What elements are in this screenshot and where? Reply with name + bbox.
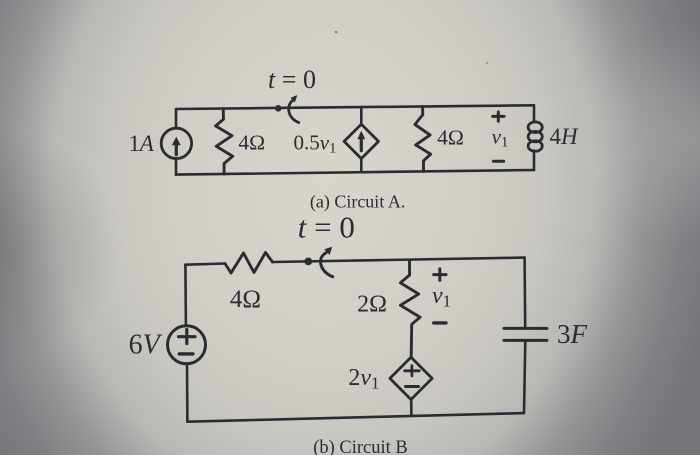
svg-text:v1: v1	[432, 283, 451, 310]
svg-text:4Ω: 4Ω	[230, 286, 261, 313]
svg-text:2v1: 2v1	[348, 365, 379, 392]
svg-text:4H: 4H	[549, 124, 579, 149]
svg-text:2Ω: 2Ω	[357, 292, 387, 318]
svg-text:t = 0: t = 0	[268, 65, 316, 94]
svg-text:t = 0: t = 0	[298, 210, 355, 245]
svg-text:4Ω: 4Ω	[437, 126, 464, 150]
svg-text:0.5v1: 0.5v1	[293, 131, 336, 157]
svg-text:3F: 3F	[557, 319, 588, 349]
svg-text:6V: 6V	[129, 330, 163, 361]
svg-text:(b) Circuit B: (b) Circuit B	[313, 438, 408, 455]
svg-text:v1: v1	[492, 125, 509, 151]
svg-text:4Ω: 4Ω	[238, 130, 265, 154]
svg-text:1A: 1A	[129, 131, 155, 156]
